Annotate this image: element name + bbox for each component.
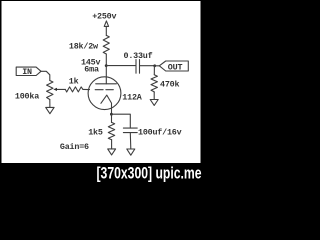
node cathode junction: [110, 113, 113, 116]
wire cathode node to C 100uf: [111, 114, 130, 128]
tube cathode: [101, 95, 112, 114]
capacitor 0.33uf: [136, 60, 140, 74]
wire cathode node to R 1k5: [111, 114, 113, 122]
tube plate bar: [96, 83, 117, 85]
svg-text:18k/2w: 18k/2w: [69, 41, 98, 51]
resistor 1k5: [108, 122, 114, 139]
svg-text:[370x300] upic.me: [370x300] upic.me: [97, 164, 202, 182]
wire C 0.33uf to out node: [140, 65, 155, 67]
wire R 1k5 to ground: [111, 140, 113, 149]
background frame: [0, 0, 204, 184]
ground below C 100uf: [127, 149, 135, 155]
tube U1 envelope: [88, 77, 121, 110]
svg-text:112A: 112A: [122, 92, 142, 102]
wire R 18k to plate node: [105, 54, 107, 66]
svg-text:Gain=6: Gain=6: [60, 142, 89, 152]
resistor 1k: [65, 87, 83, 92]
ground below pot: [46, 107, 54, 113]
potentiometer 100ka element: [47, 81, 53, 100]
wire out node to OUT tag: [155, 65, 160, 67]
node out junction: [153, 64, 156, 67]
resistor 470k: [151, 75, 157, 93]
supply arrow +250v: [104, 21, 108, 27]
svg-text:OUT: OUT: [168, 62, 183, 72]
tube plate lead: [105, 66, 107, 84]
svg-text:6ma: 6ma: [84, 65, 99, 75]
wire R 470k to ground: [153, 93, 155, 100]
wire R 1k to grid: [83, 88, 90, 90]
OUT tag: [159, 61, 188, 71]
wire IN tag to pot: [41, 71, 50, 80]
capacitor 100uf/16v: [123, 128, 137, 133]
resistor 18k/2w: [103, 35, 109, 54]
svg-text:IN: IN: [22, 67, 32, 77]
wire out node to R 470k: [153, 66, 155, 75]
wire pot to ground: [49, 100, 51, 108]
node plate junction: [105, 64, 108, 67]
svg-text:1k5: 1k5: [88, 127, 103, 137]
ground below 470k: [150, 100, 158, 106]
tube grid dashes: [95, 89, 113, 91]
white schematic area: [2, 1, 201, 163]
svg-text:1k: 1k: [69, 77, 79, 87]
pot wiper arrow: [57, 88, 66, 90]
svg-text:100uf/16v: 100uf/16v: [138, 128, 182, 138]
svg-text:100ka: 100ka: [15, 92, 39, 102]
ground below 1k5: [108, 149, 116, 155]
wire arrow to R 18k: [105, 26, 107, 35]
IN tag: [16, 67, 41, 75]
svg-text:+250v: +250v: [92, 11, 116, 21]
wire C 100uf to ground: [129, 133, 132, 149]
svg-text:0.33uf: 0.33uf: [124, 51, 153, 61]
svg-text:470k: 470k: [160, 80, 179, 90]
wire plate node to C 0.33uf: [106, 65, 136, 67]
